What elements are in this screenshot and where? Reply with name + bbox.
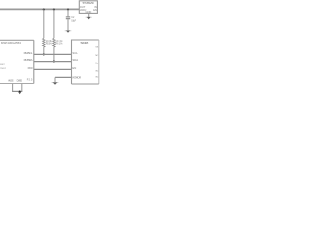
svg-text:NC: NC [96, 70, 99, 72]
svg-text:SDA: SDA [72, 58, 78, 62]
svg-text:DVSS: DVSS [17, 78, 23, 82]
svg-text:TMAG5273: TMAG5273 [80, 42, 89, 45]
svg-text:SCL: SCL [72, 51, 78, 55]
svg-text:NC: NC [96, 77, 99, 79]
svg-text:R5 1%: R5 1% [46, 43, 53, 46]
svg-text:EN: EN [72, 66, 76, 70]
svg-text:AVSS: AVSS [8, 78, 14, 82]
svg-text:P1.7/SDA: P1.7/SDA [24, 58, 33, 62]
svg-text:P2.5: P2.5 [27, 78, 33, 81]
svg-text:P2.0: P2.0 [28, 66, 33, 70]
svg-text:EN: EN [93, 8, 97, 12]
svg-text:RST: RST [0, 64, 5, 66]
svg-text:TPS7B4250: TPS7B4250 [82, 1, 94, 5]
svg-text:INT/ADR: INT/ADR [72, 76, 81, 80]
svg-text:TEST: TEST [0, 68, 6, 70]
svg-text:P1.6/SCL: P1.6/SCL [24, 51, 33, 55]
svg-text:NC: NC [95, 55, 98, 57]
svg-text:MSP430G2553: MSP430G2553 [1, 41, 21, 45]
svg-text:0.1uF: 0.1uF [71, 20, 76, 23]
svg-text:R6 1%: R6 1% [55, 43, 63, 46]
